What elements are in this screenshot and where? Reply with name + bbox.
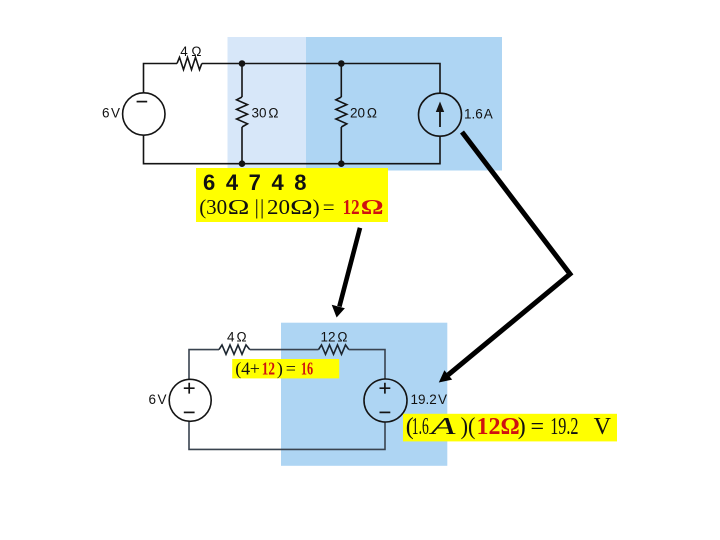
wire: between resistors (bottom circuit) [250,349,319,351]
yellow callout box (parallel combination) [196,168,388,222]
current source 1.6A (top circuit) [419,93,462,136]
node C (bottom wire, 30-ohm branch) [239,160,246,167]
voltage source 6V (bottom circuit) [169,379,211,421]
svg-text:4Ω: 4Ω [180,44,201,59]
svg-text:6 4 7 4 8: 6 4 7 4 8 [203,170,307,195]
resistor 4 ohm (bottom circuit) [219,345,250,354]
polarity minus of bottom 6V [184,411,195,413]
yellow callout box (ohms law result) [403,414,617,442]
node A (top wire, 30-ohm branch) [239,60,246,67]
svg-text:(30Ω||20Ω)=12Ω: (30Ω||20Ω)=12Ω [199,195,383,219]
arrow from current source to 19.2V result [448,132,570,375]
arrow from equation to second circuit [339,228,360,307]
polarity minus of 19.2V [380,411,391,413]
polarity minus mark of V1 [137,101,148,103]
wire: top horizontal from resistor to current source [202,64,440,94]
polarity plus of bottom 6V [184,383,195,394]
node D (bottom wire, 20-ohm branch) [338,160,345,167]
wire: top-left from source to 4-ohm resistor [144,64,178,94]
voltage source 19.2V (bottom circuit) [364,379,407,422]
wire: bottom of top circuit [144,135,441,164]
resistor 20 ohm [336,97,347,127]
svg-text:19.2V: 19.2V [411,392,447,407]
node B (top wire, 20-ohm branch) [338,60,345,67]
resistor 12 ohm (bottom circuit) [319,345,349,354]
wire: bottom circuit bottom [189,422,385,450]
svg-text:4Ω: 4Ω [227,330,247,345]
svg-text:30Ω: 30Ω [252,106,279,121]
resistor 30 ohm [237,97,248,127]
svg-text:12Ω: 12Ω [321,330,348,345]
wire: 20-ohm branch vertical [340,64,342,164]
wire: 30-ohm branch vertical [241,64,243,164]
resistor 4 ohm (top circuit) [177,57,202,69]
highlight zone (20 ohm + current source region, darker blue) [306,37,502,171]
wire: bottom circuit top-right [349,350,385,380]
svg-text:20Ω: 20Ω [350,106,377,121]
highlight zone (bottom circuit, blue) [281,323,447,466]
svg-text:6V: 6V [102,106,120,121]
yellow callout box (series sum) [232,359,339,378]
svg-text:6V: 6V [149,392,167,407]
wire: bottom circuit top-left [189,350,219,380]
highlight zone (30 ohm region, light blue) [228,37,307,171]
polarity plus of 19.2V [380,383,391,394]
voltage source V1 6V (top circuit) [123,93,165,135]
svg-text:1.6A: 1.6A [464,106,493,121]
svg-text:(4+12)=16: (4+12)=16 [235,359,313,380]
